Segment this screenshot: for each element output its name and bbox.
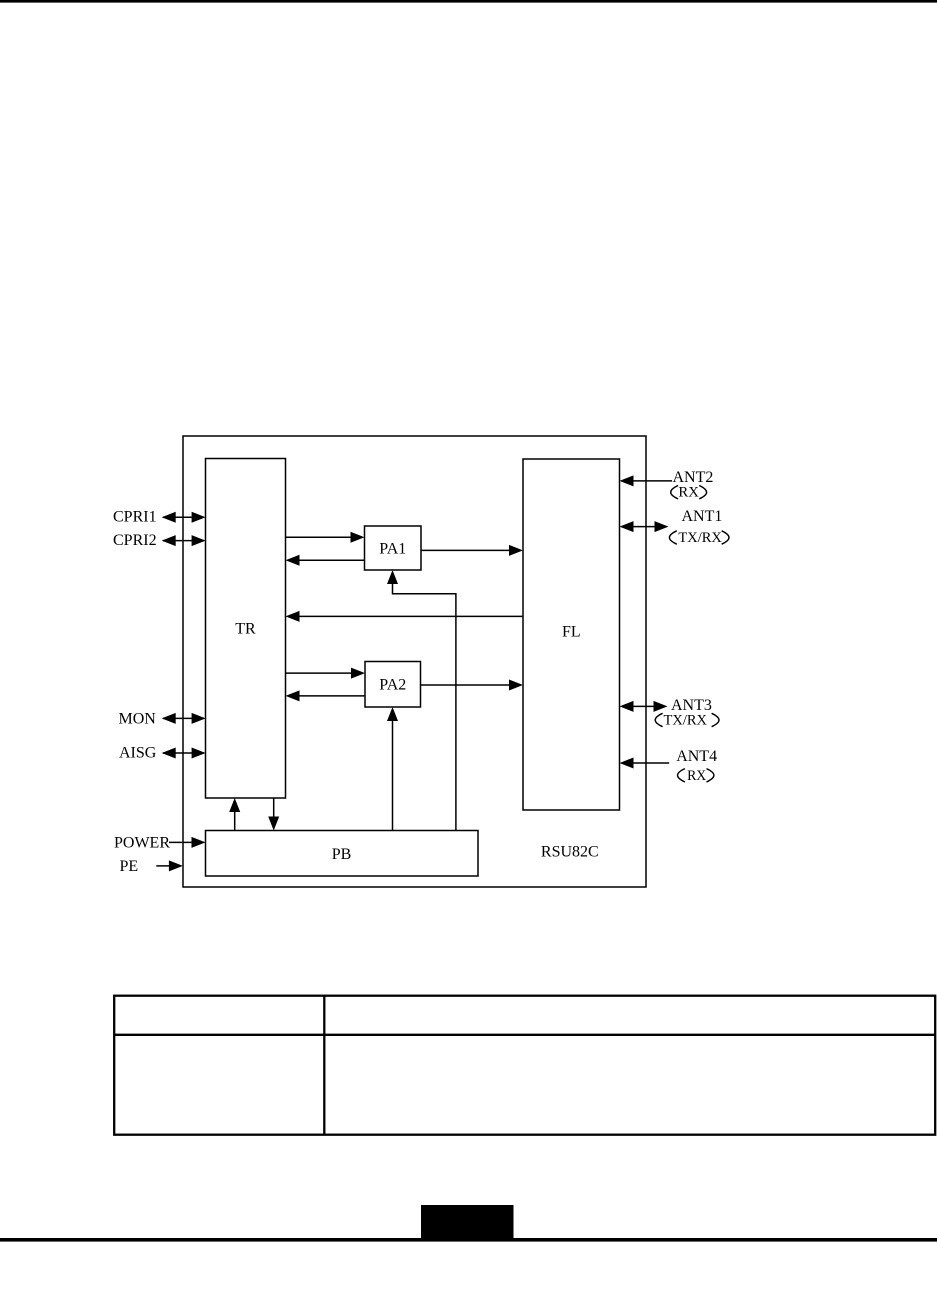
svg-text:AISG: AISG: [119, 745, 157, 762]
svg-text:ANT4: ANT4: [676, 748, 717, 765]
svg-text:RSU82C: RSU82C: [541, 843, 599, 860]
svg-text:MON: MON: [119, 711, 157, 728]
svg-text:RX: RX: [678, 485, 699, 501]
svg-text:POWER: POWER: [114, 835, 170, 852]
svg-text:ANT2: ANT2: [673, 469, 714, 486]
svg-text:ANT1: ANT1: [682, 508, 723, 525]
svg-text:PA2: PA2: [379, 677, 406, 694]
svg-text:PA1: PA1: [379, 541, 406, 558]
svg-text:TX/RX: TX/RX: [664, 713, 708, 729]
svg-text:TX/RX: TX/RX: [678, 530, 722, 546]
svg-text:ANT3: ANT3: [671, 697, 712, 714]
svg-text:CPRI1: CPRI1: [113, 509, 157, 526]
svg-text:PE: PE: [120, 858, 139, 875]
svg-text:RX: RX: [687, 768, 706, 784]
svg-text:TR: TR: [235, 620, 256, 637]
svg-text:PB: PB: [332, 846, 352, 863]
svg-text:CPRI2: CPRI2: [113, 532, 157, 549]
svg-text:FL: FL: [562, 624, 581, 641]
